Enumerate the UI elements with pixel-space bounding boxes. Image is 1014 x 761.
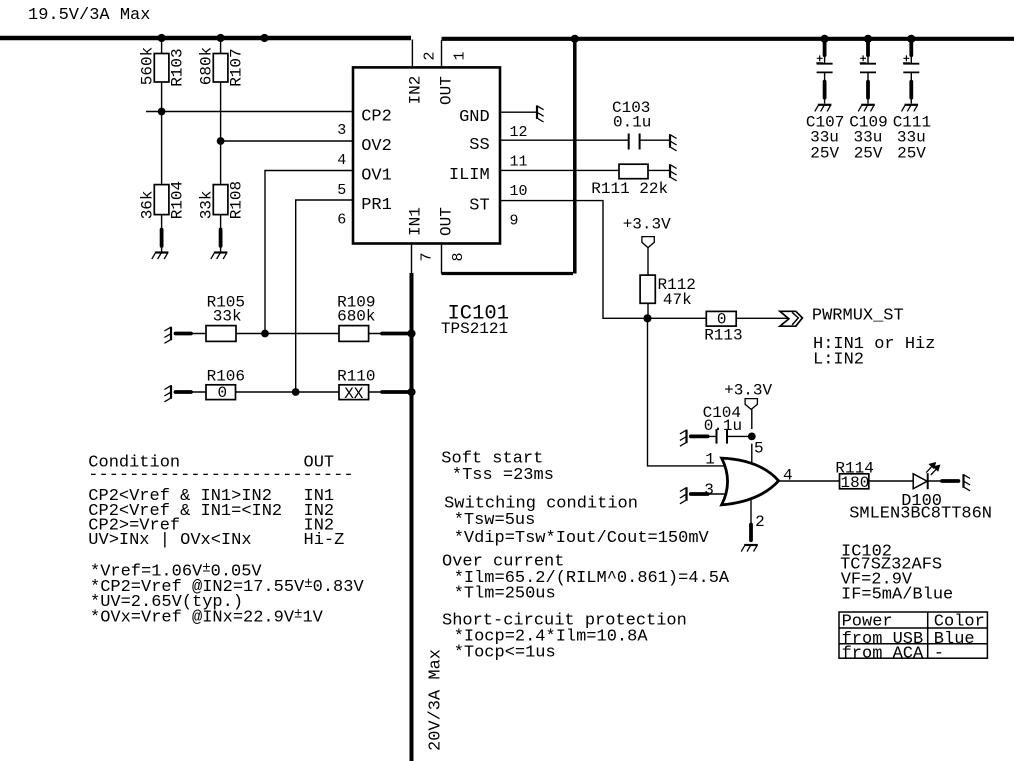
svg-text:+3.3V: +3.3V [724,382,772,400]
svg-text:560k: 560k [139,47,157,85]
svg-text:R103: R103 [169,48,187,86]
svg-text:*Vdip=Tsw*Iout/Cout=150mV: *Vdip=Tsw*Iout/Cout=150mV [454,529,710,548]
svg-text:R111 22k: R111 22k [591,180,668,198]
svg-text:TPS2121: TPS2121 [441,320,508,338]
svg-text:Color: Color [934,613,985,632]
svg-text:680k: 680k [337,308,375,326]
svg-text:+3.3V: +3.3V [623,216,671,234]
svg-text:OV1: OV1 [361,166,392,185]
svg-text:0: 0 [218,384,228,402]
svg-text:5: 5 [754,440,764,458]
svg-text:SS: SS [469,136,489,155]
svg-text:*Tocp<=1us: *Tocp<=1us [454,643,556,662]
svg-text:R108: R108 [228,181,246,219]
svg-text:*Tsw=5us: *Tsw=5us [454,511,536,530]
svg-text:GND: GND [459,108,490,127]
svg-text:1: 1 [705,451,715,469]
svg-text:ILIM: ILIM [449,166,490,185]
svg-text:2: 2 [422,51,439,60]
svg-text:ST: ST [469,196,489,215]
svg-text:0: 0 [717,310,727,328]
svg-text:47k: 47k [663,291,692,309]
svg-text:UV>INx | OVx<INx: UV>INx | OVx<INx [88,531,251,550]
svg-text:R107: R107 [228,48,246,86]
svg-text:19.5V/3A Max: 19.5V/3A Max [28,6,150,25]
svg-text:1: 1 [452,51,469,60]
svg-text:3: 3 [337,122,346,139]
svg-text:25V: 25V [810,145,839,163]
svg-text:--------------------------: -------------------------- [88,466,353,485]
svg-text:0.1u: 0.1u [613,114,651,132]
svg-text:10: 10 [510,183,528,200]
svg-text:2: 2 [755,513,765,531]
svg-text:25V: 25V [854,145,883,163]
svg-text:4: 4 [783,466,793,484]
svg-text:SMLEN3BC8TT86N: SMLEN3BC8TT86N [849,505,992,524]
svg-text:OUT: OUT [438,76,456,105]
svg-text:R113: R113 [704,327,742,345]
svg-text:R106: R106 [207,367,245,385]
svg-text:11: 11 [510,153,528,170]
svg-text:25V: 25V [897,145,926,163]
svg-text:IN2: IN2 [407,76,425,105]
svg-text:*Tss =23ms: *Tss =23ms [452,466,554,485]
svg-text:*OVx=Vref @INx=22.9V±1V: *OVx=Vref @INx=22.9V±1V [90,606,324,627]
svg-text:CP2: CP2 [361,107,392,126]
svg-text:*Tlm=250us: *Tlm=250us [454,585,556,604]
svg-text:8: 8 [450,252,467,261]
svg-text:XX: XX [344,385,364,403]
svg-text:5: 5 [337,182,346,199]
svg-text:680k: 680k [198,47,216,85]
svg-text:0.1u: 0.1u [704,417,742,435]
svg-text:R104: R104 [169,181,187,219]
svg-text:Hi-Z: Hi-Z [304,531,345,550]
svg-text:IN1: IN1 [407,207,425,236]
svg-text:L:IN2: L:IN2 [813,351,864,370]
svg-text:PWRMUX_ST: PWRMUX_ST [812,307,904,326]
svg-text:4: 4 [337,152,346,169]
svg-text:OV2: OV2 [361,137,392,156]
svg-text:-: - [934,645,944,664]
svg-text:6: 6 [337,211,346,228]
svg-text:33k: 33k [198,190,216,219]
svg-text:from ACA: from ACA [842,645,924,664]
svg-text:PR1: PR1 [361,196,392,215]
svg-text:R110: R110 [337,367,375,385]
svg-text:12: 12 [510,124,528,141]
svg-text:180: 180 [841,474,870,492]
svg-text:3: 3 [704,481,714,499]
svg-text:IF=5mA/Blue: IF=5mA/Blue [841,586,953,605]
svg-text:OUT: OUT [438,207,456,236]
svg-text:Power: Power [842,613,893,632]
svg-text:9: 9 [510,212,519,229]
svg-text:7: 7 [419,252,436,261]
svg-text:36k: 36k [139,190,157,219]
svg-text:20V/3A Max: 20V/3A Max [427,649,446,751]
svg-text:33k: 33k [213,308,242,326]
